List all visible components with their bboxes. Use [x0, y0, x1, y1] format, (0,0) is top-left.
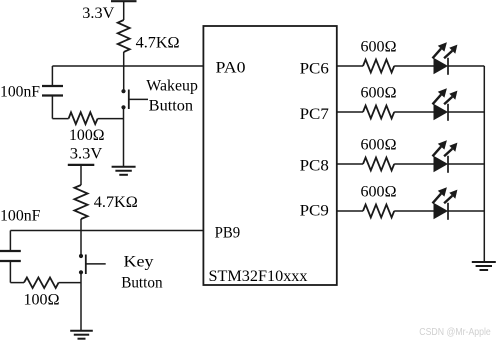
svg-text:PC7: PC7	[300, 106, 329, 123]
svg-text:PC6: PC6	[300, 61, 329, 78]
svg-text:Wakeup: Wakeup	[146, 78, 198, 95]
svg-text:100Ω: 100Ω	[69, 127, 105, 144]
svg-text:PC9: PC9	[300, 203, 329, 220]
svg-text:600Ω: 600Ω	[361, 137, 397, 154]
svg-text:3.3V: 3.3V	[82, 5, 114, 22]
svg-text:Button: Button	[149, 97, 193, 114]
svg-text:PC8: PC8	[300, 158, 329, 175]
svg-text:100nF: 100nF	[0, 208, 41, 225]
svg-text:PA0: PA0	[216, 60, 246, 77]
svg-text:3.3V: 3.3V	[70, 146, 103, 163]
svg-text:100nF: 100nF	[0, 84, 40, 101]
svg-text:STM32F10xxx: STM32F10xxx	[209, 268, 308, 285]
svg-text:600Ω: 600Ω	[361, 184, 397, 201]
svg-text:100Ω: 100Ω	[24, 292, 60, 309]
svg-text:PB9: PB9	[215, 225, 241, 242]
svg-text:4.7KΩ: 4.7KΩ	[94, 194, 138, 211]
svg-text:Button: Button	[121, 275, 162, 292]
svg-text:4.7KΩ: 4.7KΩ	[136, 35, 180, 52]
svg-text:600Ω: 600Ω	[361, 39, 397, 56]
svg-text:600Ω: 600Ω	[361, 85, 397, 102]
svg-text:CSDN @Mr-Apple: CSDN @Mr-Apple	[419, 326, 491, 338]
svg-text:Key: Key	[124, 254, 154, 271]
